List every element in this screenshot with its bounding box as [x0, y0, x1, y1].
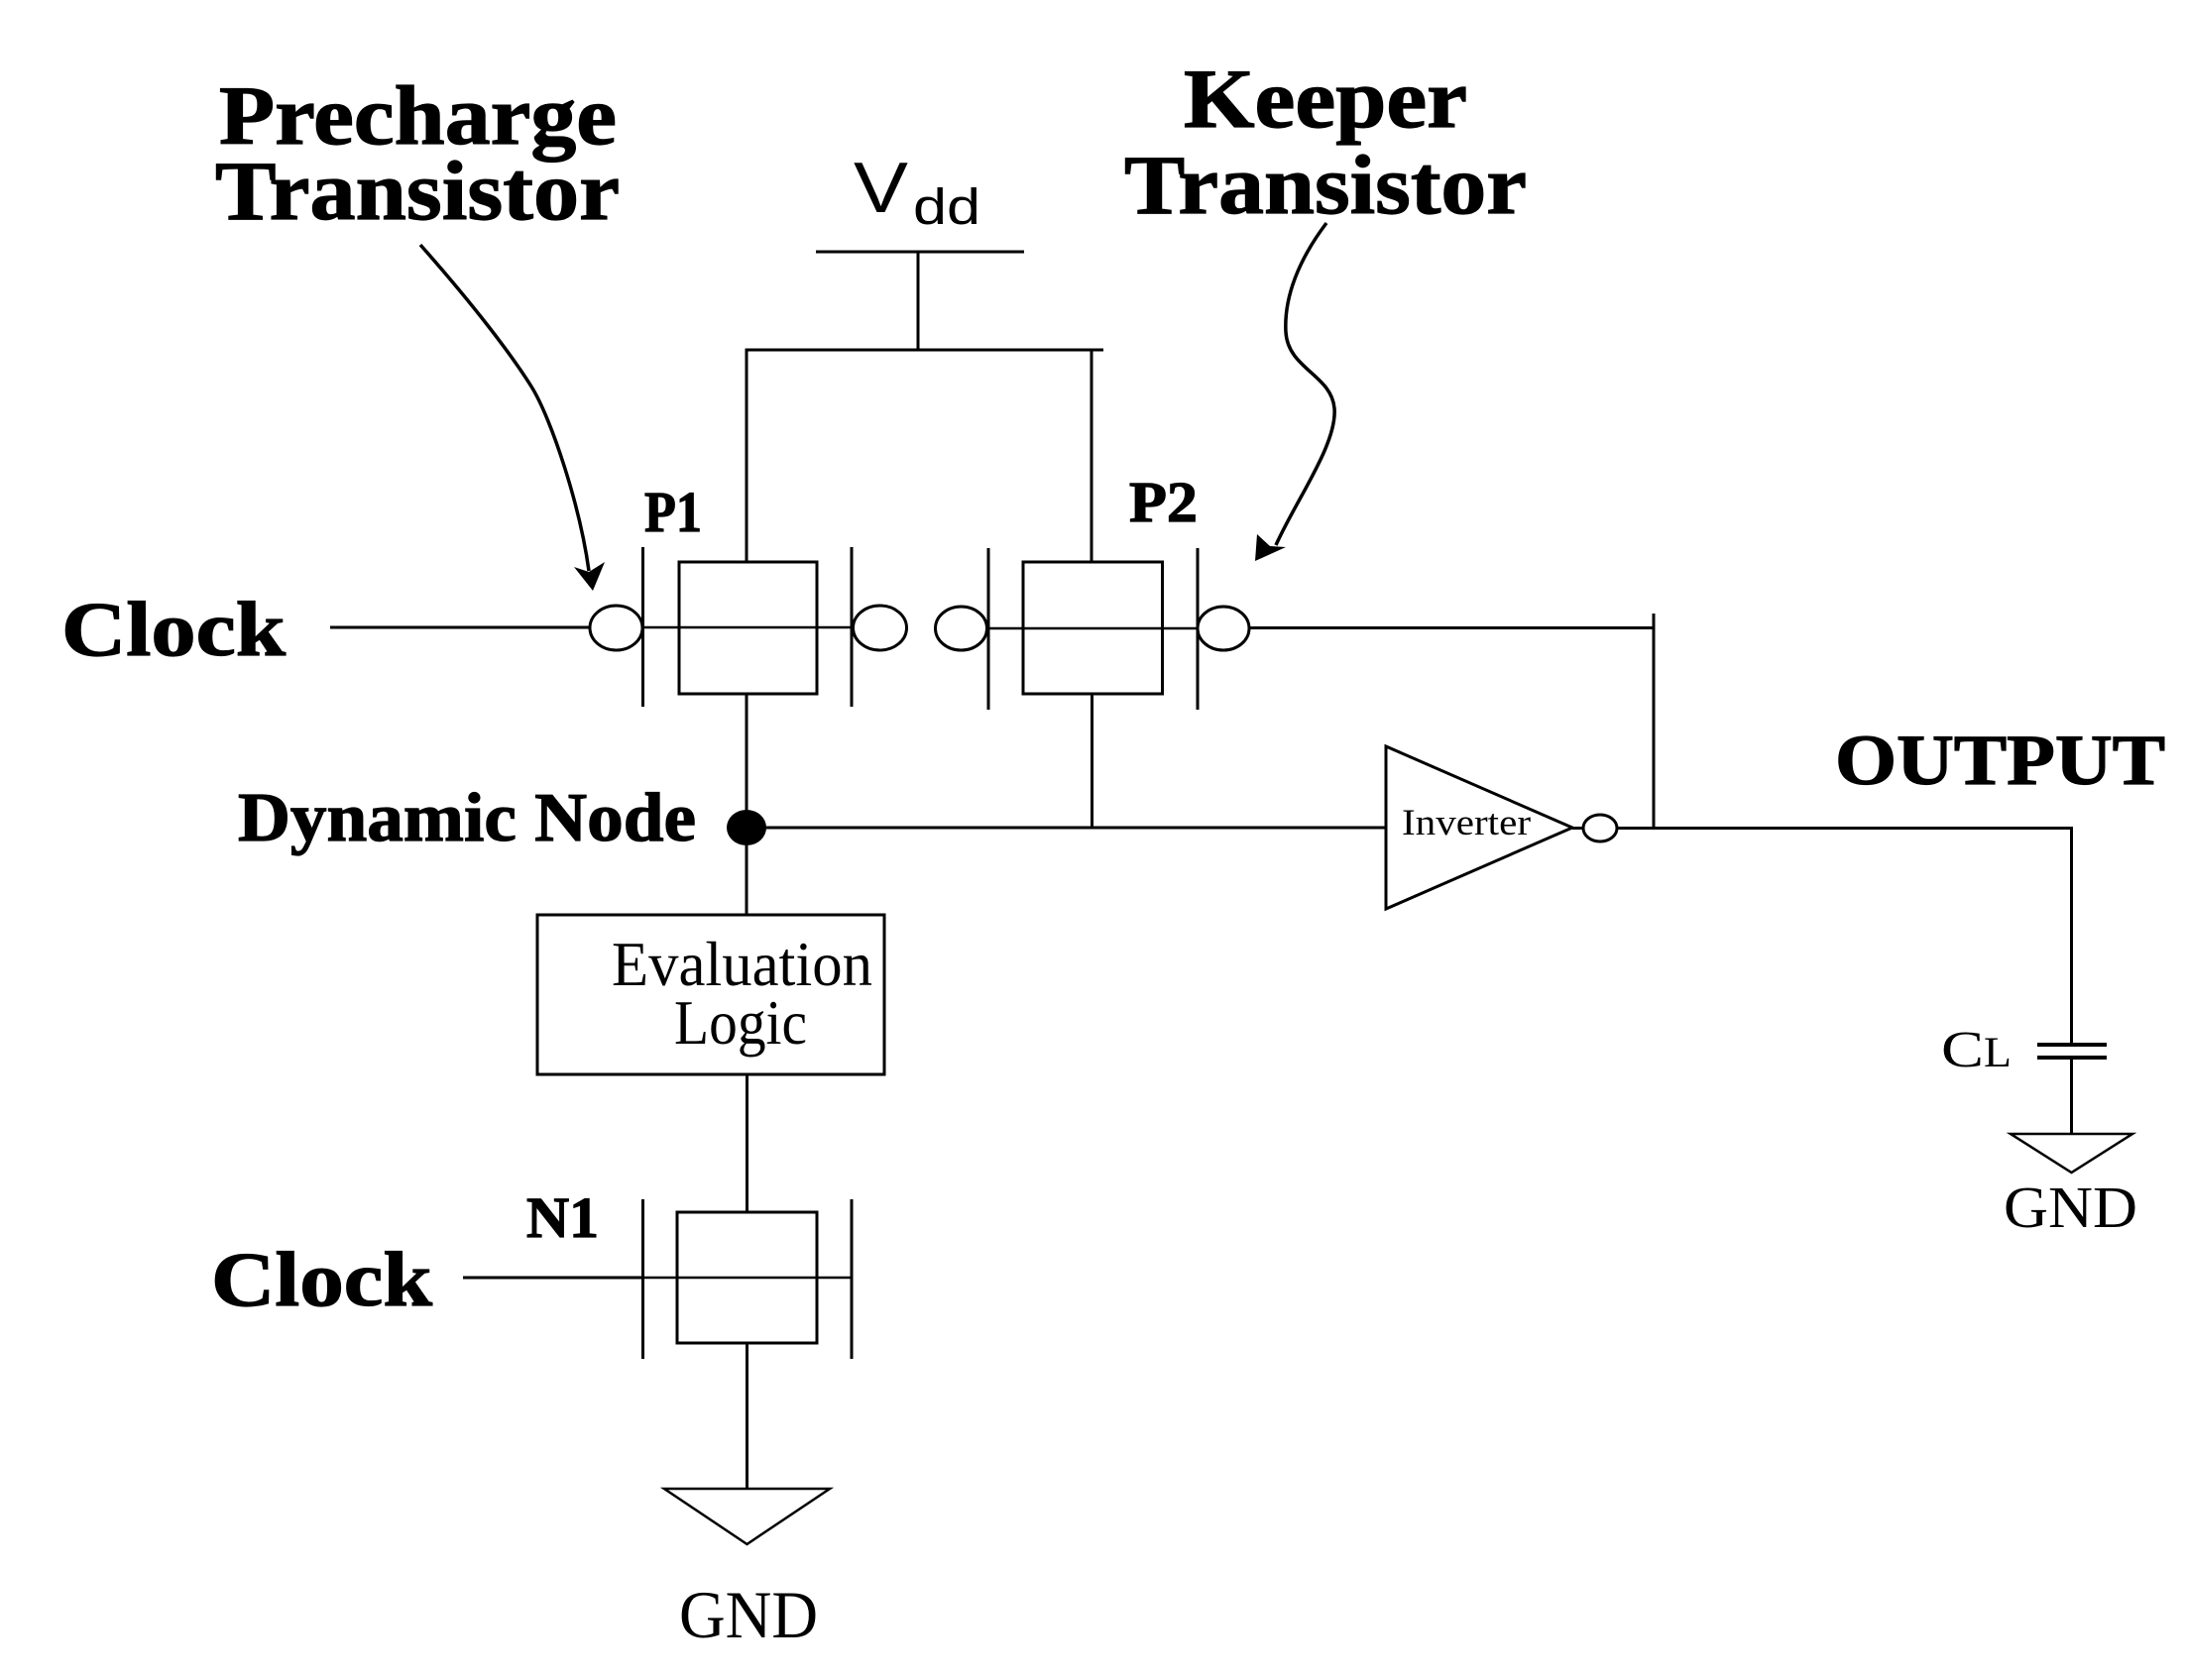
- svg-text:P1: P1: [644, 480, 702, 544]
- wire P1 drain to evaluation box: [746, 694, 748, 915]
- wire clock to N1 gate: [463, 1277, 643, 1280]
- inverter output bubble: [1583, 815, 1617, 841]
- node dot (dynamic node junction): [727, 810, 766, 845]
- svg-text:Inverter: Inverter: [1402, 803, 1531, 843]
- N1 right gate plate: [851, 1199, 854, 1359]
- P2 body box: [1023, 562, 1163, 694]
- svg-text:dd: dd: [913, 178, 980, 235]
- svg-text:GND: GND: [679, 1577, 818, 1652]
- wire P2 source drop: [1091, 349, 1093, 563]
- wire dynamic node to inverter input: [747, 827, 1386, 830]
- wire inverter output: [1572, 827, 2072, 830]
- wire CL to ground: [2070, 1058, 2073, 1134]
- inverter triangle: [1386, 746, 1572, 909]
- svg-text:L: L: [1984, 1030, 2012, 1076]
- capacitor CL: [2037, 1045, 2107, 1058]
- N1 left gate plate: [641, 1199, 644, 1359]
- wire P1 source drop: [746, 349, 748, 563]
- svg-text:V: V: [854, 149, 908, 228]
- svg-text:Clock: Clock: [61, 586, 287, 672]
- transistor P1 (precharge PMOS): [590, 547, 907, 707]
- label CL: [1941, 1022, 2012, 1078]
- annotation arrow to P2: [1255, 223, 1334, 561]
- label "Precharge Transistor": [215, 69, 620, 238]
- label "Evaluation Logic": [612, 930, 872, 1058]
- svg-text:C: C: [1941, 1022, 1984, 1078]
- wire output drop to CL: [2070, 827, 2073, 1045]
- wire P2 drain to dynamic node rail: [1091, 694, 1093, 828]
- svg-text:Keeper: Keeper: [1184, 53, 1467, 146]
- P2 left gate plate: [987, 548, 990, 710]
- P2 left gate bubble: [936, 607, 987, 650]
- P1 right gate plate: [851, 547, 854, 707]
- wire Vdd stem: [917, 252, 920, 350]
- N1 body box: [677, 1212, 817, 1343]
- wire top rail: [747, 349, 1103, 352]
- CL bottom plate: [2037, 1056, 2107, 1060]
- Vdd label: [854, 149, 980, 235]
- svg-text:Transistor: Transistor: [1124, 139, 1527, 232]
- evaluation logic block: [537, 915, 884, 1074]
- P2 channel wire: [988, 627, 1198, 630]
- svg-text:GND: GND: [2004, 1175, 2137, 1240]
- wire keeper gate feedback horizontal: [1249, 626, 1654, 629]
- P1 right gate bubble: [854, 606, 907, 650]
- svg-text:Transistor: Transistor: [215, 145, 620, 238]
- svg-text:Clock: Clock: [211, 1236, 433, 1322]
- P1 left gate plate: [641, 547, 644, 707]
- wire clock to P1 gate: [330, 626, 590, 629]
- transistor N1 (evaluate NMOS): [643, 1199, 853, 1359]
- P1 channel wire: [643, 626, 853, 629]
- wire keeper gate feedback vertical: [1653, 614, 1656, 829]
- svg-text:Dynamic Node: Dynamic Node: [238, 780, 696, 856]
- annotation arrow to P1: [420, 245, 605, 591]
- op-amp style inverter U1: [1386, 746, 1572, 909]
- ground symbol (right): [2011, 1134, 2132, 1173]
- N1 channel wire: [643, 1277, 853, 1280]
- CL top plate: [2037, 1043, 2107, 1047]
- svg-text:P2: P2: [1129, 470, 1198, 534]
- svg-text:N1: N1: [526, 1185, 599, 1250]
- P1 left gate bubble: [590, 606, 642, 650]
- wire evaluation logic to N1 drain: [746, 1074, 748, 1212]
- Vdd power bar: [816, 251, 1024, 254]
- wire N1 source to ground: [746, 1343, 748, 1489]
- P2 right gate plate: [1197, 548, 1200, 710]
- svg-text:OUTPUT: OUTPUT: [1835, 721, 2165, 800]
- transistor P2 (keeper PMOS): [936, 548, 1250, 710]
- ground symbol (bottom): [664, 1489, 830, 1544]
- P2 right gate bubble: [1198, 607, 1249, 650]
- svg-text:Logic: Logic: [674, 988, 807, 1058]
- label "Keeper Transistor": [1124, 53, 1527, 232]
- P1 body box: [679, 562, 817, 694]
